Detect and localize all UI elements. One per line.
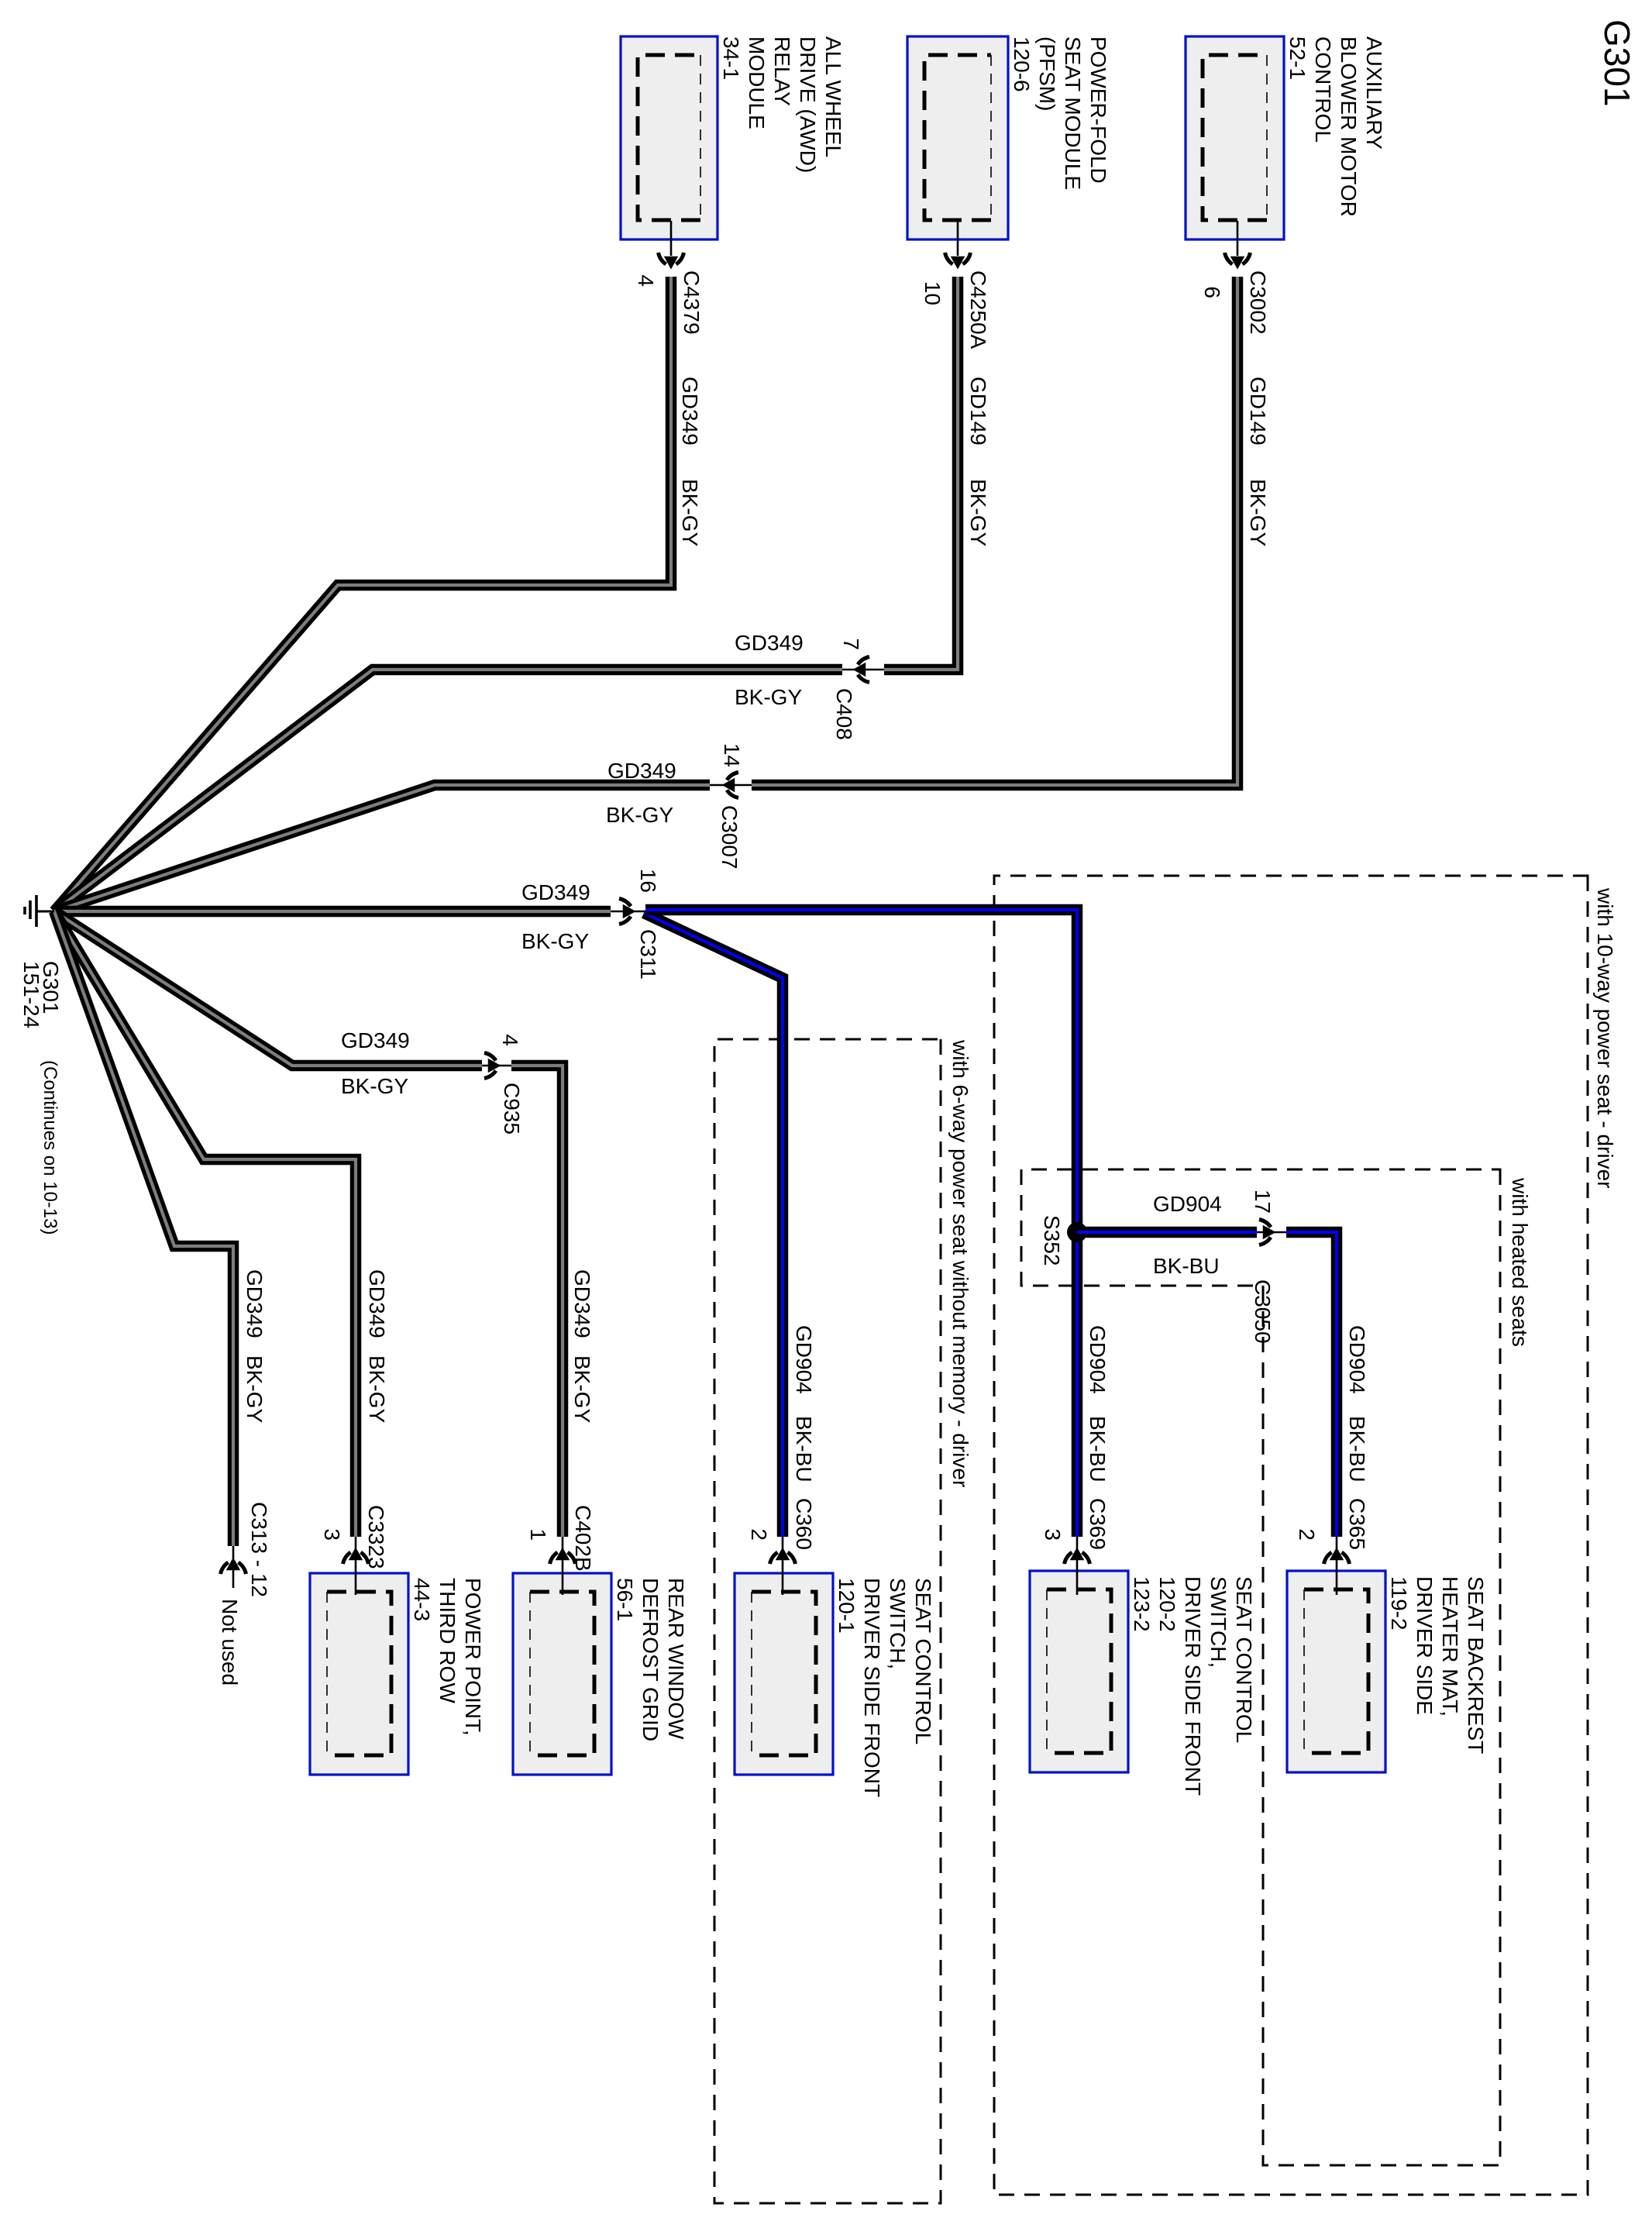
- svg-text:3: 3: [320, 1528, 344, 1541]
- svg-text:GD149: GD149: [1246, 377, 1270, 446]
- region: with 6-way power seat without memory - driver: [714, 1039, 972, 2203]
- wire W3 GD149/GD349 BK-GY from C3002 (AUX BLOWER MOTOR pin 6) through C3007 to G301: [54, 221, 1237, 911]
- svg-text:56-1: 56-1: [613, 1578, 637, 1621]
- svg-text:BK-BU: BK-BU: [1086, 1416, 1110, 1483]
- svg-text:SEAT CONTROL: SEAT CONTROL: [911, 1578, 935, 1744]
- svg-text:BK-BU: BK-BU: [1153, 1254, 1220, 1278]
- svg-text:Not used: Not used: [218, 1599, 242, 1686]
- svg-text:BK-GY: BK-GY: [341, 1074, 408, 1098]
- wire W5 GD349 BK-GY from G301 through C935 to C402B (REAR WINDOW DEFROST GRID): [54, 911, 563, 1595]
- svg-text:SEAT CONTROL: SEAT CONTROL: [1232, 1576, 1256, 1743]
- ground designator G301 151-24: [19, 961, 63, 1028]
- svg-text:C311: C311: [636, 929, 660, 980]
- svg-text:REAR WINDOW: REAR WINDOW: [664, 1578, 688, 1740]
- svg-text:MODULE: MODULE: [745, 36, 769, 129]
- svg-text:with 6-way power seat without: with 6-way power seat without memory - d…: [948, 1039, 972, 1487]
- svg-text:DRIVE (AWD): DRIVE (AWD): [796, 36, 820, 173]
- inline connector C935 pin 4: [484, 1053, 500, 1079]
- svg-text:4: 4: [498, 1034, 522, 1046]
- svg-text:C3007: C3007: [718, 805, 742, 870]
- wire W6 GD349 BK-GY from G301 to C3323 (POWER POINT THIRD ROW pin 3): [54, 911, 356, 1595]
- svg-text:GD349: GD349: [570, 1269, 594, 1338]
- svg-text:GD349: GD349: [678, 377, 702, 446]
- svg-text:SEAT BACKREST: SEAT BACKREST: [1464, 1576, 1488, 1754]
- svg-text:POWER POINT,: POWER POINT,: [461, 1578, 485, 1736]
- svg-text:DRIVER SIDE FRONT: DRIVER SIDE FRONT: [860, 1578, 884, 1797]
- svg-text:ALL WHEEL: ALL WHEEL: [821, 36, 845, 157]
- svg-text:34-1: 34-1: [719, 36, 743, 80]
- connector symbol at C3323: [343, 1548, 369, 1564]
- connector symbol at C3002: [1225, 253, 1251, 268]
- svg-text:POWER-FOLD: POWER-FOLD: [1086, 36, 1110, 184]
- svg-text:GD904: GD904: [1086, 1325, 1110, 1394]
- svg-text:10: 10: [921, 281, 945, 305]
- svg-text:BK-GY: BK-GY: [243, 1355, 267, 1423]
- inline connector C3007 pin 14: [723, 773, 738, 798]
- connector box: SEAT BACKREST HEATER MAT DRIVER SIDE 119-2: [1287, 1571, 1488, 1772]
- svg-text:with 10-way power seat - drive: with 10-way power seat - driver: [1593, 887, 1617, 1188]
- svg-text:G301: G301: [1597, 19, 1637, 107]
- svg-text:C4250A: C4250A: [966, 270, 990, 350]
- svg-text:BK-GY: BK-GY: [606, 803, 673, 827]
- svg-text:BK-GY: BK-GY: [1246, 479, 1270, 546]
- svg-text:C935: C935: [500, 1083, 524, 1135]
- connector box: POWER POINT THIRD ROW 44-3: [310, 1573, 485, 1775]
- connector symbol at C365: [1324, 1548, 1350, 1564]
- svg-text:SWITCH,: SWITCH,: [1206, 1576, 1230, 1668]
- connector box: REAR WINDOW DEFROST GRID 56-1: [513, 1573, 688, 1775]
- wire B3 GD904 BK-BU from S352 through C3050 to C365 (SEAT BACKREST HEATER MAT): [1077, 1232, 1337, 1595]
- svg-text:C313 - 12: C313 - 12: [247, 1502, 271, 1597]
- svg-text:BK-GY: BK-GY: [365, 1355, 389, 1423]
- svg-text:GD349: GD349: [521, 880, 590, 904]
- svg-text:THIRD ROW: THIRD ROW: [435, 1578, 459, 1703]
- svg-text:BK-GY: BK-GY: [966, 479, 990, 546]
- connector symbol at C4379: [659, 253, 684, 268]
- connector symbol at C4250A: [945, 253, 971, 268]
- svg-text:151-24: 151-24: [19, 961, 43, 1028]
- svg-text:GD349: GD349: [735, 631, 804, 655]
- svg-text:120-6: 120-6: [1010, 36, 1034, 92]
- region: with heated seats: [1021, 1169, 1532, 2165]
- connector box: SEAT CONTROL SWITCH DRIVER SIDE FRONT 120-2 123-2: [1030, 1571, 1256, 1796]
- svg-text:GD349: GD349: [607, 759, 676, 783]
- wire W7 GD349 BK-GY from G301 to C313-12 (Not used): [54, 911, 233, 1588]
- svg-text:4: 4: [634, 274, 658, 287]
- svg-text:GD904: GD904: [1153, 1192, 1222, 1216]
- wire B1 GD904 BK-BU from C311 to C369 (SEAT CONTROL SWITCH 120-2): [645, 910, 1077, 1595]
- svg-text:DRIVER SIDE FRONT: DRIVER SIDE FRONT: [1181, 1576, 1205, 1796]
- svg-text:C4379: C4379: [680, 270, 704, 335]
- svg-text:RELAY: RELAY: [770, 36, 794, 106]
- svg-text:52-1: 52-1: [1285, 36, 1310, 80]
- svg-text:2: 2: [747, 1528, 771, 1541]
- connector box U1: AUXILIARY BLOWER MOTOR CONTROL 52-1: [1186, 36, 1386, 239]
- svg-text:119-2: 119-2: [1387, 1576, 1411, 1631]
- svg-text:BK-GY: BK-GY: [678, 479, 702, 546]
- svg-text:16: 16: [636, 869, 660, 893]
- svg-text:1: 1: [526, 1528, 550, 1541]
- svg-text:S352: S352: [1040, 1215, 1064, 1266]
- connector symbol at C369: [1065, 1548, 1090, 1564]
- svg-text:BLOWER MOTOR: BLOWER MOTOR: [1337, 36, 1361, 217]
- svg-text:BK-GY: BK-GY: [570, 1355, 594, 1423]
- wire W1 GD349 BK-GY from C4379 (ALL WHEEL DRIVE RELAY MODULE pin 4) to G301: [54, 221, 671, 911]
- svg-text:BK-GY: BK-GY: [521, 929, 589, 953]
- svg-text:C360: C360: [792, 1498, 816, 1550]
- svg-text:BK-BU: BK-BU: [1345, 1416, 1369, 1483]
- svg-text:BK-GY: BK-GY: [735, 685, 802, 709]
- inline connector C311 pin 16: [619, 899, 635, 925]
- svg-text:7: 7: [839, 638, 863, 650]
- svg-text:GD149: GD149: [966, 377, 990, 446]
- connector symbol at C313: [221, 1558, 246, 1574]
- connector symbol at C360: [770, 1548, 796, 1564]
- region: with 10-way power seat - driver: [994, 876, 1617, 2195]
- connector box: SEAT CONTROL SWITCH DRIVER SIDE FRONT 120-1: [735, 1573, 935, 1797]
- svg-text:GD349: GD349: [341, 1028, 410, 1052]
- svg-text:BK-BU: BK-BU: [792, 1416, 816, 1483]
- svg-text:GD904: GD904: [792, 1325, 816, 1394]
- svg-text:(PFSM): (PFSM): [1035, 36, 1059, 111]
- svg-text:C3002: C3002: [1246, 270, 1270, 335]
- inline connector C408 pin 7: [854, 657, 869, 683]
- inline connector C3050 pin 17: [1259, 1220, 1275, 1245]
- wire W2 GD149/GD349 BK-GY from C4250A (PFSM pin 10) through C408 to G301: [54, 221, 958, 911]
- svg-text:120-1: 120-1: [835, 1578, 859, 1634]
- svg-text:HEATER MAT,: HEATER MAT,: [1438, 1576, 1462, 1717]
- svg-text:C369: C369: [1086, 1498, 1110, 1550]
- svg-text:17: 17: [1251, 1190, 1275, 1214]
- svg-text:C3050: C3050: [1251, 1279, 1275, 1344]
- svg-text:GD349: GD349: [365, 1269, 389, 1338]
- svg-text:CONTROL: CONTROL: [1311, 36, 1335, 143]
- connector box U2: POWER-FOLD SEAT MODULE (PFSM) 120-6: [907, 36, 1110, 239]
- svg-text:C365: C365: [1345, 1498, 1369, 1550]
- svg-text:SWITCH,: SWITCH,: [886, 1578, 910, 1669]
- wire B2 stub at C360: [782, 1537, 784, 1595]
- svg-text:AUXILIARY: AUXILIARY: [1362, 36, 1386, 150]
- svg-text:C408: C408: [832, 688, 856, 740]
- svg-text:GD349: GD349: [243, 1269, 267, 1338]
- svg-text:120-2: 120-2: [1155, 1576, 1179, 1632]
- connector symbol at C402B: [550, 1548, 576, 1564]
- connector box U3: ALL WHEEL DRIVE (AWD) RELAY MODULE 34-1: [621, 36, 845, 239]
- svg-text:SEAT MODULE: SEAT MODULE: [1061, 36, 1085, 190]
- svg-text:C3323: C3323: [364, 1505, 388, 1569]
- svg-text:(Continues on 10-13): (Continues on 10-13): [40, 1060, 60, 1235]
- wire B2 GD904 BK-BU from C311 to C360 (SEAT CONTROL SWITCH 120-1): [644, 913, 783, 1537]
- wire W4 GD349 BK-GY from G301 up to C311 pin 16: [54, 906, 646, 918]
- svg-text:DEFROST GRID: DEFROST GRID: [638, 1578, 663, 1741]
- svg-text:C402B: C402B: [571, 1505, 595, 1572]
- splice S352: [1067, 1222, 1087, 1242]
- svg-text:3: 3: [1041, 1528, 1065, 1541]
- ground G301: [25, 895, 54, 927]
- svg-text:6: 6: [1200, 286, 1224, 298]
- svg-text:123-2: 123-2: [1130, 1576, 1154, 1632]
- svg-text:44-3: 44-3: [410, 1578, 434, 1621]
- svg-text:with heated seats: with heated seats: [1508, 1177, 1532, 1347]
- svg-text:GD904: GD904: [1345, 1325, 1369, 1394]
- svg-text:DRIVER SIDE: DRIVER SIDE: [1413, 1576, 1437, 1715]
- svg-text:2: 2: [1295, 1528, 1319, 1541]
- svg-text:14: 14: [720, 743, 744, 767]
